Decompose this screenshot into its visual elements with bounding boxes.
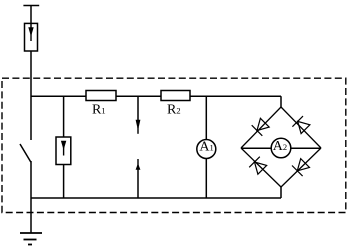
surge arrester F1 xyxy=(25,23,38,51)
ground xyxy=(20,233,42,245)
wire: bridge horizontal through A2 xyxy=(241,147,321,149)
wire: F1 to switch xyxy=(30,51,32,140)
ammeter A1 xyxy=(197,140,216,159)
bridge diamond sides xyxy=(241,107,321,187)
wire: ammeter A1 branch xyxy=(205,96,207,198)
wire: terminal into arrester F1 xyxy=(30,6,32,28)
wire: switch to bottom bus xyxy=(30,161,32,198)
wire: top bus left segment xyxy=(31,95,86,97)
wire: arrester F2 branch drop xyxy=(63,96,65,137)
ammeter A2 xyxy=(271,138,291,158)
wire: bridge bottom stub xyxy=(280,187,282,198)
spark gap lower electrode xyxy=(136,159,141,198)
wire: ground drop xyxy=(30,198,32,233)
dashed enclosure xyxy=(2,78,346,212)
switch S blade xyxy=(20,144,31,162)
svg-text:R1: R1 xyxy=(92,102,106,117)
spark gap upper electrode xyxy=(136,96,141,134)
wire: F2 to bottom bus xyxy=(63,165,65,199)
svg-text:A2: A2 xyxy=(273,139,287,154)
surge arrester F2 xyxy=(56,137,71,165)
svg-text:R2: R2 xyxy=(167,102,181,117)
diode D1 (top-left arm) xyxy=(252,117,270,135)
diode D3 (bottom-left arm) xyxy=(249,157,267,175)
svg-text:A1: A1 xyxy=(199,139,213,154)
surge arrester F2 arrow xyxy=(61,141,66,156)
wire: R1 to R2 xyxy=(116,95,161,97)
diode D4 (bottom-right arm) xyxy=(292,158,310,176)
resistor R1 xyxy=(86,91,116,101)
diode D2 (top-right arm) xyxy=(292,116,310,134)
resistor R2 xyxy=(161,91,190,101)
surge arrester F1 arrow xyxy=(28,27,33,41)
wire: bridge top stub xyxy=(280,96,282,107)
terminal bar xyxy=(23,5,39,7)
wire: R2 to bridge corner xyxy=(190,95,281,97)
wire: bottom bus xyxy=(31,197,281,199)
